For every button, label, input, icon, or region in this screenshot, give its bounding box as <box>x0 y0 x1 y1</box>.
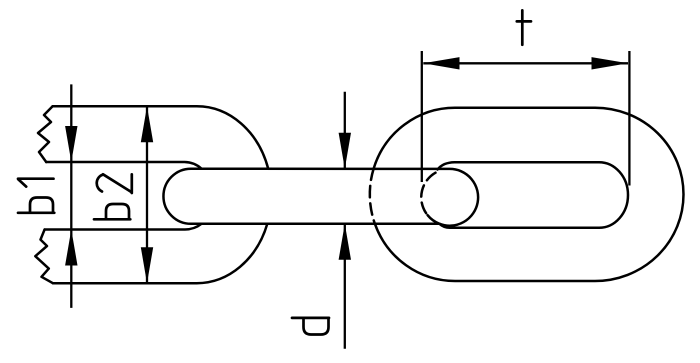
left link break zigzag top <box>38 106 53 162</box>
right link inner left cap hidden behind bar (dashed) <box>421 173 435 216</box>
right link inner right cap <box>599 162 628 228</box>
arrowhead d top (points down) <box>339 133 351 169</box>
right link inner bottom edge + bottom-left merge <box>440 224 600 228</box>
right link inner top edge + top-left fillet <box>438 162 600 169</box>
label b2 (rotated): glyph 2 <box>97 174 132 193</box>
dimension b1 line <box>70 84 72 308</box>
label t (dimension t) <box>517 10 531 45</box>
left link inner bottom edge <box>45 224 202 230</box>
dimension t extension line right <box>628 51 630 186</box>
left link inner top edge <box>46 162 201 169</box>
middle bar: next link seen edge-on (white fill occludes) <box>163 169 478 226</box>
dimension b2 line <box>146 106 148 283</box>
label b1 (rotated): glyph 1 <box>18 179 54 187</box>
left link outer top edge + outer cap upper arc <box>53 106 269 168</box>
arrowhead t right <box>592 57 629 69</box>
left link break zigzag bottom <box>35 230 53 284</box>
dimension t line <box>423 62 628 64</box>
right link inner left cap lower solid piece <box>428 215 440 224</box>
right link outer left cap hidden behind bar (dashed) <box>370 169 375 224</box>
arrowhead b1 bottom (points up) <box>65 230 77 266</box>
arrowhead b2 bottom (points down) <box>141 247 153 283</box>
label b2 (rotated): glyph b <box>94 204 130 219</box>
label b1 (rotated): glyph b <box>18 198 54 213</box>
dimension t extension line left <box>421 51 423 182</box>
right link outer contour, solid portions <box>374 108 684 281</box>
dimension d line bottom <box>344 224 346 349</box>
left link outer cap lower arc + outer bottom edge <box>53 224 267 283</box>
arrowhead b1 top (points down) <box>65 126 77 162</box>
arrowhead t left <box>423 57 459 69</box>
dimension d line top <box>344 92 346 169</box>
arrowhead b2 top (points up) <box>141 106 153 142</box>
arrowhead d bottom (points up) <box>339 224 351 260</box>
label d (rotated) <box>292 318 329 335</box>
